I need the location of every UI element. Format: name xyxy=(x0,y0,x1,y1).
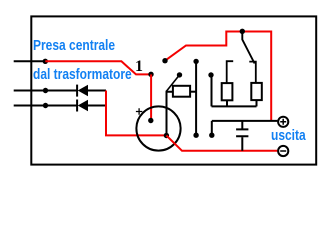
wire red feed to output plus xyxy=(165,32,271,121)
svg-text:1: 1 xyxy=(135,58,143,75)
node base junction dot xyxy=(164,133,169,138)
resistor R2 xyxy=(222,83,233,100)
wire resistor bottom rail xyxy=(212,105,257,107)
polarity plus mark xyxy=(136,108,142,115)
terminal output plus xyxy=(278,117,288,127)
wire diode D2 output xyxy=(87,105,106,107)
wire R3 bottom lead xyxy=(256,100,258,106)
label Presa centrale xyxy=(33,37,115,54)
wiper arm of R1 xyxy=(166,75,179,92)
wire stub down with terminal xyxy=(211,121,213,135)
node wiper terminal dot xyxy=(177,72,182,77)
wire transformer winding top stub xyxy=(14,90,77,92)
node winding top junction xyxy=(43,88,48,93)
node winding bottom junction xyxy=(43,103,48,108)
wire output top rail xyxy=(212,120,278,122)
diode D1 xyxy=(77,85,88,97)
capacitor C1 top lead xyxy=(241,121,243,129)
node stub terminal dot xyxy=(209,133,214,138)
node rail bottom terminal xyxy=(193,133,198,138)
capacitor C1 plates xyxy=(236,129,248,136)
node 1 junction xyxy=(148,72,153,77)
switch SW1 left contact xyxy=(227,61,234,83)
label uscita xyxy=(271,127,306,144)
switch SW1 right contact xyxy=(249,62,256,83)
wire emitter out (red) xyxy=(166,136,277,151)
label dal trasformatore xyxy=(33,66,132,83)
wire R1 right lead xyxy=(190,91,196,93)
wire rail up to sense node xyxy=(211,75,213,106)
wire transformer winding bottom stub xyxy=(14,105,77,107)
resistor R3 xyxy=(251,83,261,100)
wire rectified negative (red) to base rail xyxy=(106,91,166,136)
wire collector drop (red) xyxy=(150,74,152,120)
terminal output minus xyxy=(278,146,288,156)
node red feed terminal dot xyxy=(162,58,167,63)
wire center tap red to node 1 xyxy=(45,61,151,74)
capacitor C1 bottom lead xyxy=(241,137,243,151)
wire R2 bottom lead xyxy=(226,100,228,106)
node sense terminal dot xyxy=(208,72,213,77)
resistor R1 (pot body) xyxy=(173,86,190,97)
diode D2 xyxy=(77,100,88,112)
enclosure border frame xyxy=(31,16,316,164)
wire pot left lead down into Q1 xyxy=(167,92,173,136)
wire vertical rail with terminals xyxy=(195,61,197,135)
switch SW1 blade xyxy=(242,32,254,64)
transistor Q1 body circle xyxy=(136,106,180,150)
node center tap junction xyxy=(43,59,48,64)
wire transformer center tap stub xyxy=(14,60,46,62)
wire diode D1 output xyxy=(87,90,106,92)
switch SW1 common dot xyxy=(240,29,245,34)
node collector terminal dot xyxy=(148,118,153,123)
node rail top terminal xyxy=(193,59,198,64)
